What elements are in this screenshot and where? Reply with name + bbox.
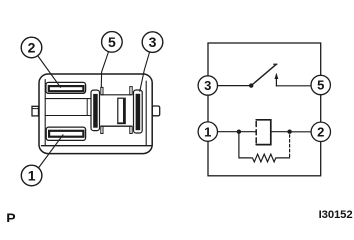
svg-text:3: 3 (204, 78, 211, 93)
wire node A to coil (239, 131, 256, 133)
ref circle 2 (21, 37, 42, 58)
left mounting tab (32, 106, 39, 116)
svg-text:1: 1 (28, 167, 36, 183)
relay coil (256, 120, 271, 145)
svg-text:1: 1 (204, 124, 211, 139)
switch blade (251, 64, 276, 85)
resistor branch right wire (276, 157, 290, 159)
right mounting tab (152, 106, 160, 116)
center key slot dark bottom edge (118, 122, 125, 124)
terminal circle 3 (198, 76, 217, 95)
wire switch to terminal 5 (276, 85, 311, 87)
terminal slot 1 outer (46, 127, 85, 140)
node A (237, 130, 241, 134)
center key bottom-right post (130, 126, 132, 133)
svg-text:P: P (6, 210, 15, 222)
terminal 2 blade (49, 86, 84, 91)
relay body (39, 74, 152, 154)
center key slot (118, 98, 125, 123)
wire coil to node B (271, 131, 290, 133)
terminal circle 2 (311, 122, 330, 141)
svg-text:3: 3 (149, 34, 157, 50)
relay face mid line upper (45, 98, 91, 100)
leader to terminal 2 (38, 57, 60, 88)
relay inner left line (44, 80, 46, 146)
terminal circle 1 (198, 122, 217, 141)
terminal slot 5 frame (91, 90, 100, 131)
svg-text:5: 5 (108, 34, 116, 50)
svg-text:I30152: I30152 (319, 209, 353, 221)
terminal slot 3 frame (134, 90, 143, 133)
center key top bar (101, 94, 131, 96)
ref circle 5 (102, 32, 123, 53)
ref circle 1 (21, 165, 42, 186)
center key bottom bar (101, 125, 131, 127)
schematic frame (208, 43, 321, 176)
relay bottom inner line (42, 145, 152, 147)
terminal circle 5 (311, 75, 330, 94)
resistor R (253, 154, 276, 162)
relay inner right line (145, 81, 147, 145)
switch contact post (275, 78, 277, 87)
switch pivot dot (249, 83, 253, 87)
wire node B to terminal 2 (290, 131, 312, 133)
left tab inner line (33, 108, 39, 110)
resistor branch left wire (239, 132, 252, 158)
relay face mid step (86, 99, 88, 115)
leader to terminal 5 (101, 52, 108, 88)
wire terminal 1 to node A (218, 131, 239, 133)
svg-text:2: 2 (28, 39, 36, 55)
coil left dashed edge (255, 122, 257, 144)
switch contact arrowhead (275, 73, 279, 79)
svg-text:5: 5 (317, 78, 324, 93)
center key bottom-left post (101, 126, 103, 133)
switch blade tip tick (274, 63, 277, 65)
center key slot dark edge (123, 100, 125, 123)
center key top-left post (101, 87, 103, 94)
leader to terminal 1 (39, 135, 63, 168)
leader to terminal 3 (140, 52, 150, 91)
node B (287, 130, 291, 134)
ref circle 3 (142, 32, 163, 53)
svg-text:2: 2 (317, 125, 324, 140)
wire terminal 3 to switch (218, 85, 252, 87)
relay face mid line lower (45, 115, 91, 117)
terminal 3 blade (136, 94, 141, 130)
dashed branch to node B (289, 135, 291, 157)
terminal 5 blade (93, 94, 98, 128)
terminal slot 2 outer (46, 82, 86, 93)
terminal 1 blade (49, 131, 83, 137)
center key top-right post (130, 87, 132, 95)
